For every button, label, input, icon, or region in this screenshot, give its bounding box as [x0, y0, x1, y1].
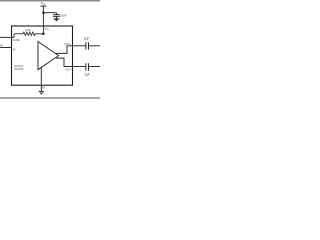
- svg-text:1µF: 1µF: [84, 72, 90, 76]
- svg-text:OUT-: OUT-: [65, 67, 71, 71]
- junction dot at VDD rail: [42, 11, 45, 14]
- wire OUT- external to cap: [72, 66, 86, 68]
- junction dot at resistor/VDD node: [42, 33, 45, 36]
- svg-text:10µF: 10µF: [60, 14, 67, 18]
- op-amp U1 amplifier triangle: [38, 42, 59, 70]
- capacitor C1 10uF: [53, 13, 60, 19]
- wire OUT+ external to cap: [72, 45, 86, 47]
- svg-text:MAX9718: MAX9718: [15, 68, 24, 71]
- svg-text:IN: IN: [0, 44, 3, 48]
- wire junction down into IC to resistor node: [42, 13, 44, 34]
- wire FILTER pin riser: [13, 34, 15, 38]
- svg-text:VDD: VDD: [41, 1, 47, 6]
- bottom figure border: [0, 97, 100, 99]
- svg-text:IN: IN: [13, 48, 16, 52]
- svg-text:FILTER: FILTER: [13, 39, 20, 42]
- wire IN external: [0, 47, 12, 49]
- ground (signal ground under IC): [39, 91, 44, 94]
- IC box U1: [12, 26, 73, 85]
- svg-text:GND: GND: [42, 86, 45, 90]
- wire GND from amplifier to ground: [40, 67, 42, 92]
- svg-text:1µF: 1µF: [84, 37, 90, 41]
- wire OUT+ to right edge: [89, 45, 101, 47]
- ground (bypass cap): [54, 19, 60, 21]
- capacitor C2 1uF (OUT+): [86, 42, 89, 49]
- node VDD supply terminal: [40, 1, 46, 6]
- svg-text:1.5k: 1.5k: [25, 28, 31, 32]
- capacitor C3 1uF (OUT-): [86, 63, 89, 70]
- wire OUT- to right edge: [89, 66, 101, 68]
- svg-text:VDD: VDD: [45, 27, 50, 32]
- svg-text:OUT+: OUT+: [64, 42, 71, 46]
- wire FILTER external: [0, 36, 14, 38]
- resistor R1 1.5k: [14, 32, 43, 35]
- wire OUT+ stub from amplifier: [55, 46, 72, 54]
- wire OUT- stub from amplifier: [56, 58, 72, 66]
- wire VDD terminal to junction: [42, 6, 44, 13]
- wire junction to bypass capacitor: [43, 12, 56, 14]
- top figure border: [0, 0, 100, 2]
